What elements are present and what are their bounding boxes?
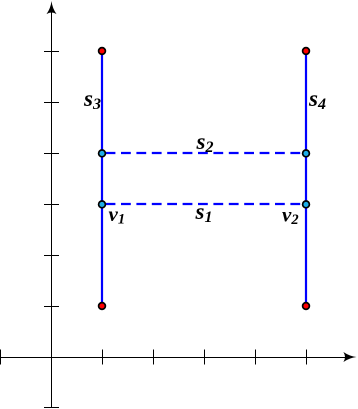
svg-text:v2: v2 bbox=[282, 203, 299, 229]
x-axis tick x=255 bbox=[255, 350, 257, 365]
y-axis tick y=255 bbox=[44, 255, 59, 257]
svg-text:s3: s3 bbox=[83, 86, 101, 113]
x-axis tick x=153 bbox=[153, 350, 155, 365]
y-axis tick y=407 bbox=[44, 407, 59, 409]
red endpoint (102,306) bbox=[99, 303, 106, 310]
x-axis bbox=[0, 357, 346, 359]
y-axis tick y=102 bbox=[44, 102, 59, 104]
x-axis tick x=102 bbox=[102, 350, 104, 365]
segment s4 (vertical) bbox=[305, 51, 307, 306]
svg-text:s1: s1 bbox=[195, 199, 213, 226]
y-axis bbox=[51, 11, 53, 408]
cyan point (102,153) bbox=[99, 150, 106, 157]
red endpoint (306,51) bbox=[303, 48, 310, 55]
x-axis tick x=306 bbox=[306, 350, 308, 365]
svg-text:s2: s2 bbox=[196, 129, 214, 156]
y-axis tick y=306 bbox=[44, 306, 59, 308]
x-axis tick x=0 bbox=[0, 350, 2, 365]
cyan point (306,153) bbox=[303, 150, 310, 157]
x-axis arrowhead bbox=[343, 352, 356, 362]
y-axis arrowhead bbox=[47, 1, 57, 14]
svg-text:v1: v1 bbox=[109, 202, 126, 228]
red endpoint (306,306) bbox=[303, 303, 310, 310]
segment s2 (dashed) bbox=[106, 152, 306, 154]
y-axis tick y=153 bbox=[44, 153, 59, 155]
y-axis tick y=204 bbox=[44, 204, 59, 206]
y-axis tick y=51 bbox=[44, 51, 59, 53]
svg-text:s4: s4 bbox=[308, 86, 326, 113]
x-axis tick x=51 bbox=[51, 350, 53, 365]
x-axis tick x=204 bbox=[204, 350, 206, 365]
cyan point v2 (306,204) bbox=[303, 201, 310, 208]
segment s3 (vertical) bbox=[101, 51, 103, 306]
cyan point v1 (102,204) bbox=[99, 201, 106, 208]
segment s1 (dashed) bbox=[106, 203, 306, 205]
red endpoint (102,51) bbox=[99, 48, 106, 55]
